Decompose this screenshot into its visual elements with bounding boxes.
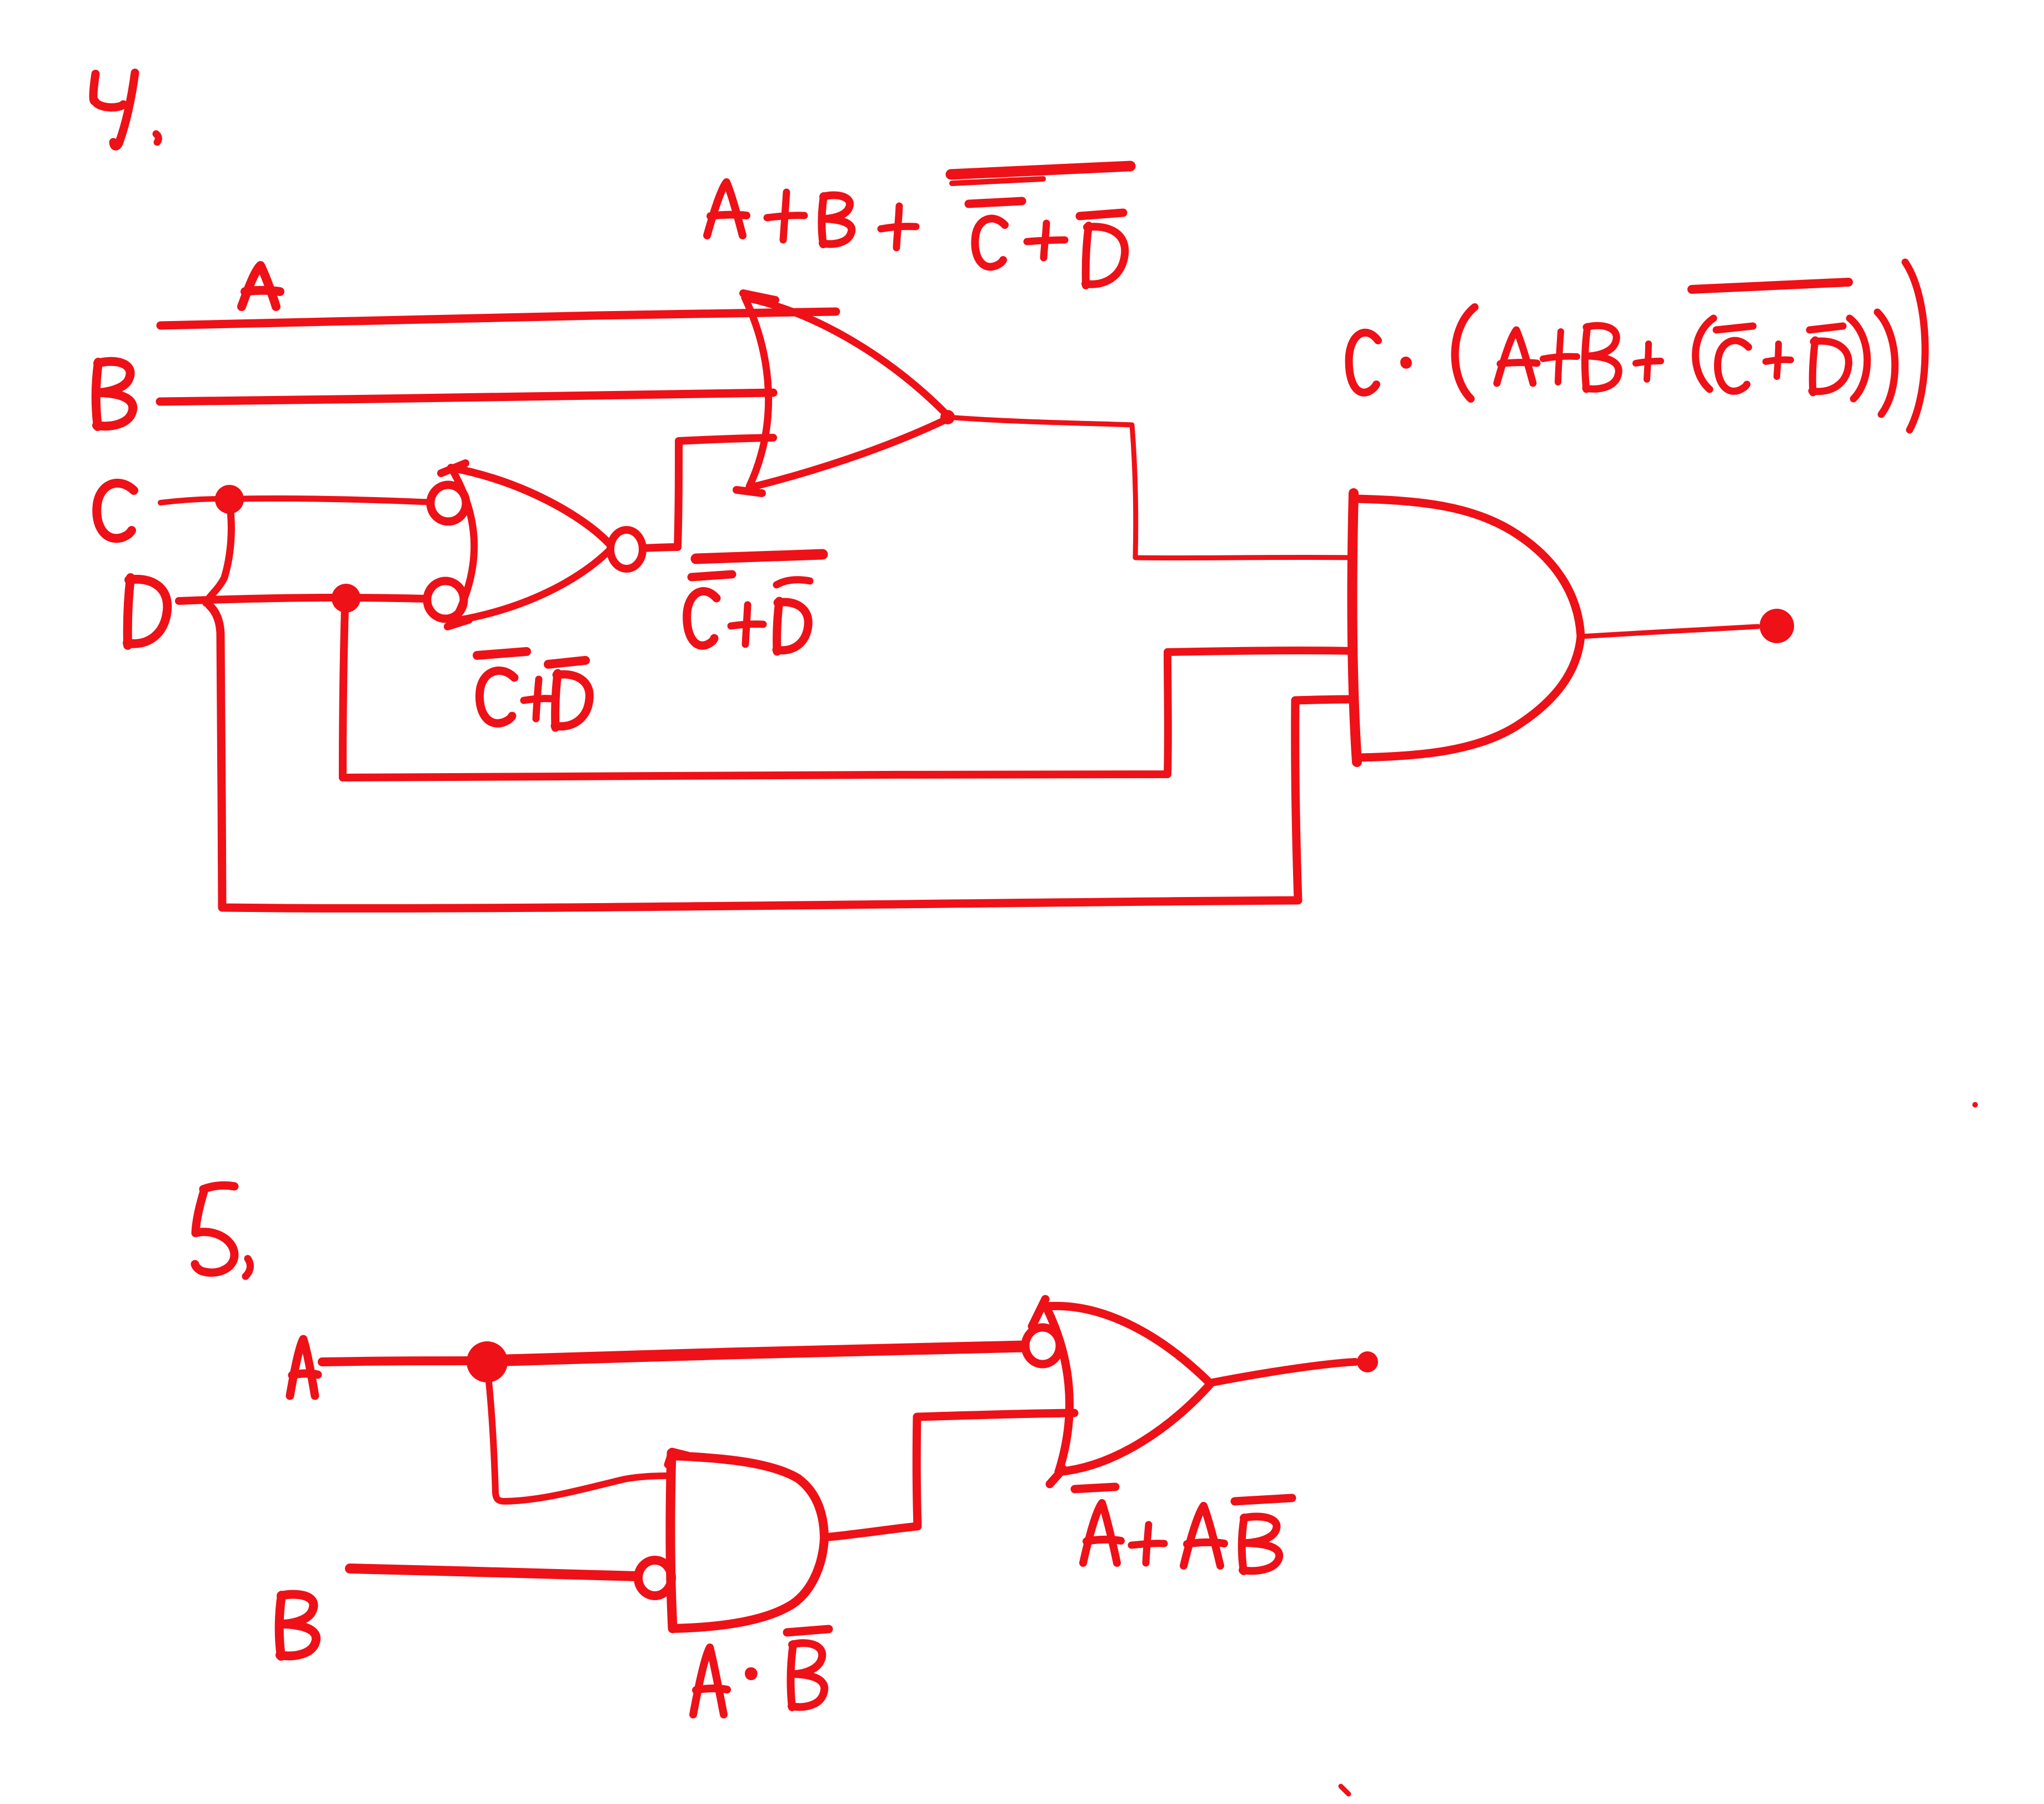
bubble NOR U3 output <box>610 530 643 569</box>
wire A input to OR gate U1 <box>161 312 836 325</box>
wire A junction to U5 input bubble <box>507 1346 1024 1360</box>
text label "4." <box>93 73 158 146</box>
wire NOR U3 output to OR1 input 3 <box>643 438 773 548</box>
text input label C (P4) <box>97 483 134 538</box>
text label C-bar + D-bar (below U3) <box>477 652 589 728</box>
stray mark <box>1972 1102 1978 1108</box>
or-gate U5 body <box>1032 1299 1210 1484</box>
text label NOT(C-bar + D-bar) (right of U3) <box>687 554 823 652</box>
wire C input to NOR gate U3 <box>161 499 222 503</box>
text label C.(A+B+NOT(C-bar+D-bar)) (output expression) <box>1349 262 1925 430</box>
text label A-bar + A B-bar (at U5) <box>1075 1487 1292 1571</box>
text label A + B + NOT(C-bar+D-bar) (above U1) <box>707 166 1130 285</box>
node circuit 5 output terminal <box>1357 1351 1378 1372</box>
wire C feedback vertical + bottom run + up to AND1 input 3 <box>209 605 1352 908</box>
junction node on C wire <box>215 485 244 514</box>
wire B input to U4 input bubble <box>350 1569 638 1576</box>
wire A input to OR gate U5 <box>322 1361 472 1362</box>
node OR1 output blob <box>940 410 955 424</box>
wire U4 output to U5 input 2 <box>824 1413 1074 1537</box>
and-gate U2 <box>1352 493 1581 762</box>
stray mark bottom <box>1341 1786 1349 1794</box>
node circuit 4 output terminal <box>1760 609 1794 643</box>
bubble U5 top input <box>1025 1327 1060 1364</box>
text label "5." <box>195 1185 251 1276</box>
and-gate U4 (A.Bbar) <box>668 1451 824 1628</box>
text input label D (P4) <box>127 578 167 645</box>
wire C junction to NOR input bubble <box>243 498 428 502</box>
wire U2 output <box>1581 627 1758 637</box>
or-gate U1 <box>737 293 948 493</box>
wire D junction down + run right + up to AND1 input 2 <box>343 608 1352 778</box>
wire B input to OR gate U1 <box>160 393 773 402</box>
text label A.B-bar (below U4) <box>693 1629 829 1715</box>
text input label A (P4) <box>242 265 280 307</box>
junction node on A wire <box>467 1341 508 1382</box>
text input label B (P5) <box>279 1595 316 1656</box>
wire U5 output <box>1210 1362 1355 1383</box>
nor-gate U3 body <box>441 463 609 627</box>
wire C branch down-left <box>206 503 231 603</box>
text input label B (P4) <box>96 362 133 427</box>
bubble NOR U3 top input <box>430 485 466 522</box>
junction node on D wire <box>332 584 360 613</box>
bubble U4 B input <box>638 1560 672 1596</box>
wire OR1 output to AND gate U2 input 1 <box>948 417 1352 558</box>
wire A branch down to NAND U4 input 1 <box>488 1371 669 1501</box>
text input label A (P5) <box>290 1339 318 1396</box>
bubble NOR U3 bottom input <box>427 581 464 619</box>
wire D input to NOR gate U3 <box>179 598 425 601</box>
